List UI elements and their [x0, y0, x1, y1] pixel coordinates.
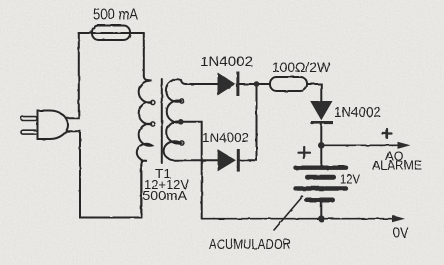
svg-text:ACUMULADOR: ACUMULADOR [209, 236, 291, 253]
svg-text:0V: 0V [393, 224, 409, 241]
svg-text:100Ω/2W: 100Ω/2W [272, 59, 331, 75]
svg-text:500mA: 500mA [143, 189, 188, 203]
svg-text:1N4002: 1N4002 [200, 53, 253, 69]
svg-text:ALARME: ALARME [372, 159, 422, 173]
svg-text:12V: 12V [340, 172, 360, 187]
svg-text:1N4002: 1N4002 [202, 131, 249, 145]
svg-text:1N4002: 1N4002 [334, 104, 381, 121]
svg-text:500 mA: 500 mA [93, 6, 139, 23]
